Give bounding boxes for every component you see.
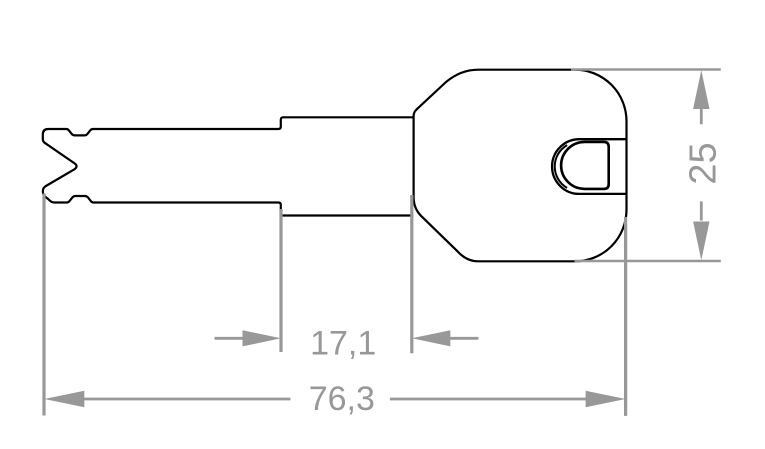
dimension line 76,3 left segment <box>84 398 291 401</box>
head slot inner D hole <box>561 142 609 189</box>
arrowhead 25 down <box>693 222 709 261</box>
extension line right of 76,3 at head right edge <box>624 217 627 416</box>
extension line left of 17,1 at shank step <box>279 209 282 352</box>
arrowhead 25 up <box>693 70 709 109</box>
arrowhead 76,3 left pointing left <box>44 391 84 407</box>
dimension line 17,1 left tail <box>215 337 244 340</box>
key blade and shank outline <box>43 117 414 215</box>
head slot chamfer arc <box>555 145 567 188</box>
extension line top of 25 <box>571 68 721 71</box>
arrowhead 76,3 right pointing right <box>586 391 626 407</box>
svg-text:25: 25 <box>683 142 725 184</box>
dimension line 17,1 right tail <box>449 337 478 340</box>
head slot outer channel <box>552 139 626 194</box>
arrowhead 17,1 right pointing left <box>412 330 451 346</box>
arrowhead 17,1 left pointing right <box>243 330 282 346</box>
extension line bottom of 25 <box>575 260 721 263</box>
dimension line 76,3 right segment <box>390 398 586 401</box>
dimension line 25 lower stub <box>700 201 703 220</box>
extension line right of 17,1 at head left edge <box>410 195 413 353</box>
key head outline <box>414 70 627 262</box>
svg-text:76,3: 76,3 <box>309 380 375 418</box>
dimension line 25 upper stub <box>700 108 703 124</box>
svg-text:17,1: 17,1 <box>310 325 376 363</box>
extension line left of 76,3 at key tip <box>42 194 45 416</box>
